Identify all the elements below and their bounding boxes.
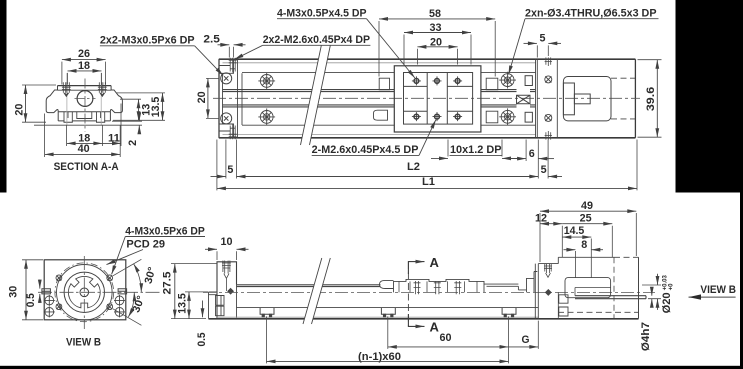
svg-text:G: G: [522, 334, 530, 346]
end face screw hole lower (circle with X): [221, 113, 232, 124]
counterbore hole lower: [499, 108, 516, 125]
svg-text:6: 6: [529, 148, 535, 160]
svg-text:26: 26: [78, 48, 90, 60]
svg-text:2: 2: [127, 140, 139, 146]
section outline left: [46, 86, 58, 113]
left block right edge lower: [236, 285, 238, 319]
flange circle solid: [57, 265, 113, 321]
motor front plate: [563, 83, 574, 115]
leader to carriage screw: [367, 19, 415, 78]
bottom view centerline: [203, 291, 655, 293]
svg-text:20: 20: [13, 104, 25, 116]
side tab left: [42, 289, 51, 294]
svg-text:10x1.2 DP: 10x1.2 DP: [450, 144, 502, 156]
housing diamond node: [546, 290, 552, 296]
left block outline: [217, 262, 237, 319]
svg-text:L1: L1: [422, 176, 435, 188]
guide band lower: [223, 104, 536, 106]
crosshair horizontal: [38, 291, 162, 293]
dim 39.6: [645, 87, 657, 112]
svg-text:14.5: 14.5: [564, 225, 585, 237]
strip screws: [414, 281, 462, 294]
pilot boss circle: [64, 272, 104, 312]
svg-text:4-M3x0.5Px4.5 DP: 4-M3x0.5Px4.5 DP: [277, 8, 367, 20]
svg-text:2.5: 2.5: [203, 34, 220, 46]
svg-text:2x2-M3x0.5Px6 DP: 2x2-M3x0.5Px6 DP: [100, 35, 195, 47]
bottom extension lines: [267, 316, 539, 363]
left end screw top (cylinder): [229, 58, 237, 73]
screw shaft band left: [237, 285, 381, 287]
section screws left pair: [62, 82, 71, 96]
dim 13: [140, 104, 152, 116]
corner hole left lower: [44, 306, 55, 317]
left clamp block bottom: [219, 124, 234, 138]
dim 13.5: [150, 97, 162, 118]
crosshair vertical: [83, 256, 85, 329]
leader to end face screw: [195, 46, 224, 76]
base top line: [237, 307, 539, 309]
left clamp block top: [219, 59, 234, 73]
end face screw hole upper (circle with X): [221, 73, 232, 84]
left flange plate: [209, 292, 218, 319]
dim O4h7: [640, 322, 652, 351]
flange screw lower (circle X): [545, 114, 552, 121]
block diamond node: [228, 288, 234, 294]
30deg label lower: [130, 294, 147, 314]
dim O20 tol: [661, 275, 675, 314]
centerline main: [213, 97, 640, 99]
VIEW B arrow right: [689, 296, 736, 298]
left end screw bottom (cylinder): [229, 125, 237, 140]
dim 0.5 viewB: [25, 293, 37, 307]
30deg label upper: [142, 266, 158, 286]
svg-text:A: A: [430, 320, 440, 335]
svg-text:0.5: 0.5: [196, 332, 208, 346]
housing right edge: [634, 59, 636, 138]
svg-text:8: 8: [581, 239, 587, 251]
carriage inner verticals: [427, 73, 447, 125]
feet grooves: [64, 112, 105, 121]
section feet: [58, 121, 110, 122]
housing right edge: [638, 257, 640, 318]
break gap white-out: [301, 46, 331, 146]
screw shaft right of carriage: [484, 284, 527, 290]
svg-text:40: 40: [78, 143, 90, 155]
flange screw bottom (cylinder): [545, 131, 552, 140]
svg-text:25: 25: [580, 212, 592, 224]
svg-text:0.5: 0.5: [25, 293, 37, 307]
svg-text:49: 49: [581, 200, 593, 212]
svg-text:20: 20: [196, 91, 208, 103]
dim 27.5: [162, 271, 174, 294]
flange screw upper (circle X): [545, 76, 552, 83]
corner hole left upper: [44, 295, 55, 306]
angle arc lower: [128, 292, 134, 317]
corner hole right upper: [114, 295, 125, 306]
side slot rect right bottom: [486, 111, 498, 123]
leader to screw: [112, 237, 126, 275]
motor body rounded rect: [563, 77, 611, 121]
rail/housing joint double line: [536, 59, 538, 138]
svg-text:30°: 30°: [130, 294, 147, 314]
leader to carriage screw bottom: [419, 120, 436, 156]
foot tab 2: [381, 308, 395, 315]
svg-text:13.5: 13.5: [176, 293, 188, 314]
section centerlines: [84, 79, 86, 132]
rail mounting hole lower left: [258, 109, 275, 126]
angle radial 30 down: [113, 309, 141, 326]
carriage inner horizontals: [404, 86, 473, 111]
boss inner line: [575, 288, 611, 296]
dim 20 left vertical: [196, 91, 208, 103]
black mask left bar: [0, 0, 7, 193]
svg-text:5: 5: [541, 164, 547, 176]
housing screw top: [544, 264, 552, 278]
break gap white-out bottom: [303, 258, 330, 324]
section outline right: [110, 86, 122, 113]
section marker bottom: [408, 314, 424, 326]
leader to left end screw: [235, 45, 263, 59]
side tab right: [118, 289, 127, 294]
svg-text:11: 11: [108, 132, 120, 144]
svg-text:13.5: 13.5: [150, 97, 162, 118]
angle arc upper: [134, 264, 142, 293]
svg-text:18: 18: [78, 60, 90, 72]
small bracket rect upper: [525, 76, 532, 86]
svg-text:SECTION A-A: SECTION A-A: [54, 161, 119, 173]
counterbore hole upper: [499, 72, 516, 89]
foot tab 1: [260, 308, 274, 315]
svg-text:+0: +0: [669, 283, 675, 291]
section top plate: [58, 85, 112, 87]
flange screw top (cylinder): [545, 57, 552, 66]
coupling bore profile: [68, 276, 100, 307]
section screws right pair: [98, 82, 107, 96]
motor boss rounded rect (bottom view): [565, 278, 611, 298]
motor shaft stub: [574, 94, 590, 104]
guide band upper: [223, 89, 536, 91]
leader PCD: [107, 250, 144, 265]
svg-text:27.5: 27.5: [162, 271, 174, 294]
svg-text:60: 60: [440, 332, 452, 344]
svg-text:2xn-Ø3.4THRU,Ø6.5x3 DP: 2xn-Ø3.4THRU,Ø6.5x3 DP: [525, 8, 657, 20]
block inner rects: [216, 296, 225, 316]
svg-text:5: 5: [227, 164, 233, 176]
side slot rect left bottom: [374, 110, 388, 120]
svg-text:12: 12: [535, 212, 547, 224]
motor flange right line: [556, 59, 558, 138]
left mid edge: [222, 73, 224, 124]
rail mounting hole upper left: [258, 73, 275, 90]
rail bottom light line: [223, 134, 537, 136]
foot tab 3: [502, 308, 516, 315]
base light line: [217, 316, 538, 318]
svg-text:A: A: [430, 255, 440, 270]
housing top step: [538, 257, 614, 263]
svg-text:10: 10: [221, 236, 233, 248]
housing flange double vertical: [535, 264, 538, 319]
carriage strip outline: [394, 279, 485, 292]
view B outer rect: [44, 260, 126, 320]
dim 20 left: [13, 104, 25, 116]
carriage outer rect: [394, 66, 481, 132]
svg-text:2x2-M2.6x0.45Px4 DP: 2x2-M2.6x0.45Px4 DP: [263, 34, 370, 46]
motor hidden dashed lines: [611, 78, 635, 119]
coupling end block: [527, 272, 538, 293]
flange screws 4x: [56, 275, 113, 310]
rail line y72.6: [242, 72, 536, 74]
svg-text:58: 58: [429, 8, 441, 20]
carriage strip left cap: [380, 280, 394, 288]
break lines top view: [301, 46, 331, 146]
carriage inner rect: [404, 73, 473, 125]
section line A-A dashed: [407, 262, 409, 326]
section bottom plate: [58, 112, 110, 121]
PCD 29 dashed circle: [55, 263, 114, 322]
housing hidden vertical dashed: [613, 257, 615, 318]
svg-text:L2: L2: [407, 161, 420, 173]
dim 0.5 bottom: [196, 332, 208, 346]
carriage screws 6x: [412, 76, 462, 121]
bottom extension lines: [217, 140, 237, 191]
block screw top: [222, 261, 231, 292]
rail line y125.2: [242, 124, 536, 126]
center circle: [80, 288, 89, 297]
section plate joint line: [58, 89, 112, 91]
end cap joint line: [237, 59, 239, 138]
side slot rect right top: [486, 78, 498, 90]
black mask bottom strip: [0, 366, 743, 369]
housing top extension lines: [540, 213, 636, 278]
end cap inner line: [241, 73, 243, 125]
section marker top: [408, 262, 424, 274]
leader to counterbore hole: [509, 19, 526, 75]
rail top light line: [223, 62, 537, 64]
coupling bowtie: [517, 95, 531, 104]
svg-text:PCD 29: PCD 29: [126, 239, 165, 251]
rail left edge: [218, 59, 220, 138]
base bottom line: [209, 318, 639, 320]
strip verticals: [399, 281, 477, 292]
svg-text:4-M3x0.5Px6 DP: 4-M3x0.5Px6 DP: [125, 226, 205, 238]
side slot rect left top: [379, 78, 389, 90]
rail outer rect bottom edge: [219, 137, 635, 139]
dim 30 left: [7, 286, 19, 298]
corner hole right lower: [114, 306, 125, 317]
svg-text:Ø4h7: Ø4h7: [640, 322, 652, 351]
screw shaft dark band: [575, 296, 646, 299]
svg-text:VIEW B: VIEW B: [700, 284, 736, 296]
svg-text:Ø20: Ø20: [661, 292, 673, 313]
svg-text:5: 5: [540, 33, 546, 45]
rail outer rect top edge: [219, 58, 635, 60]
through extension lines: [67, 73, 101, 125]
housing hidden top dashed: [614, 256, 639, 258]
dim 13.5 bottom: [176, 293, 188, 314]
svg-text:39.6: 39.6: [645, 87, 657, 112]
break lines bottom view: [303, 258, 330, 324]
housing inner vertical: [557, 292, 559, 318]
svg-text:30°: 30°: [142, 266, 158, 286]
section bore circle: [77, 91, 93, 107]
svg-text:VIEW B: VIEW B: [66, 336, 101, 348]
housing hidden bottom dashed: [558, 311, 639, 313]
small bracket rect lower: [525, 112, 532, 122]
angle radial 30 up: [113, 259, 141, 276]
svg-text:2-M2.6x0.45Px4.5 DP: 2-M2.6x0.45Px4.5 DP: [312, 144, 419, 156]
black mask top-right: [676, 0, 743, 193]
svg-text:30: 30: [7, 286, 19, 298]
black mask right strip: [740, 193, 743, 369]
dim 2: [127, 140, 139, 146]
housing small rects: [559, 295, 568, 316]
